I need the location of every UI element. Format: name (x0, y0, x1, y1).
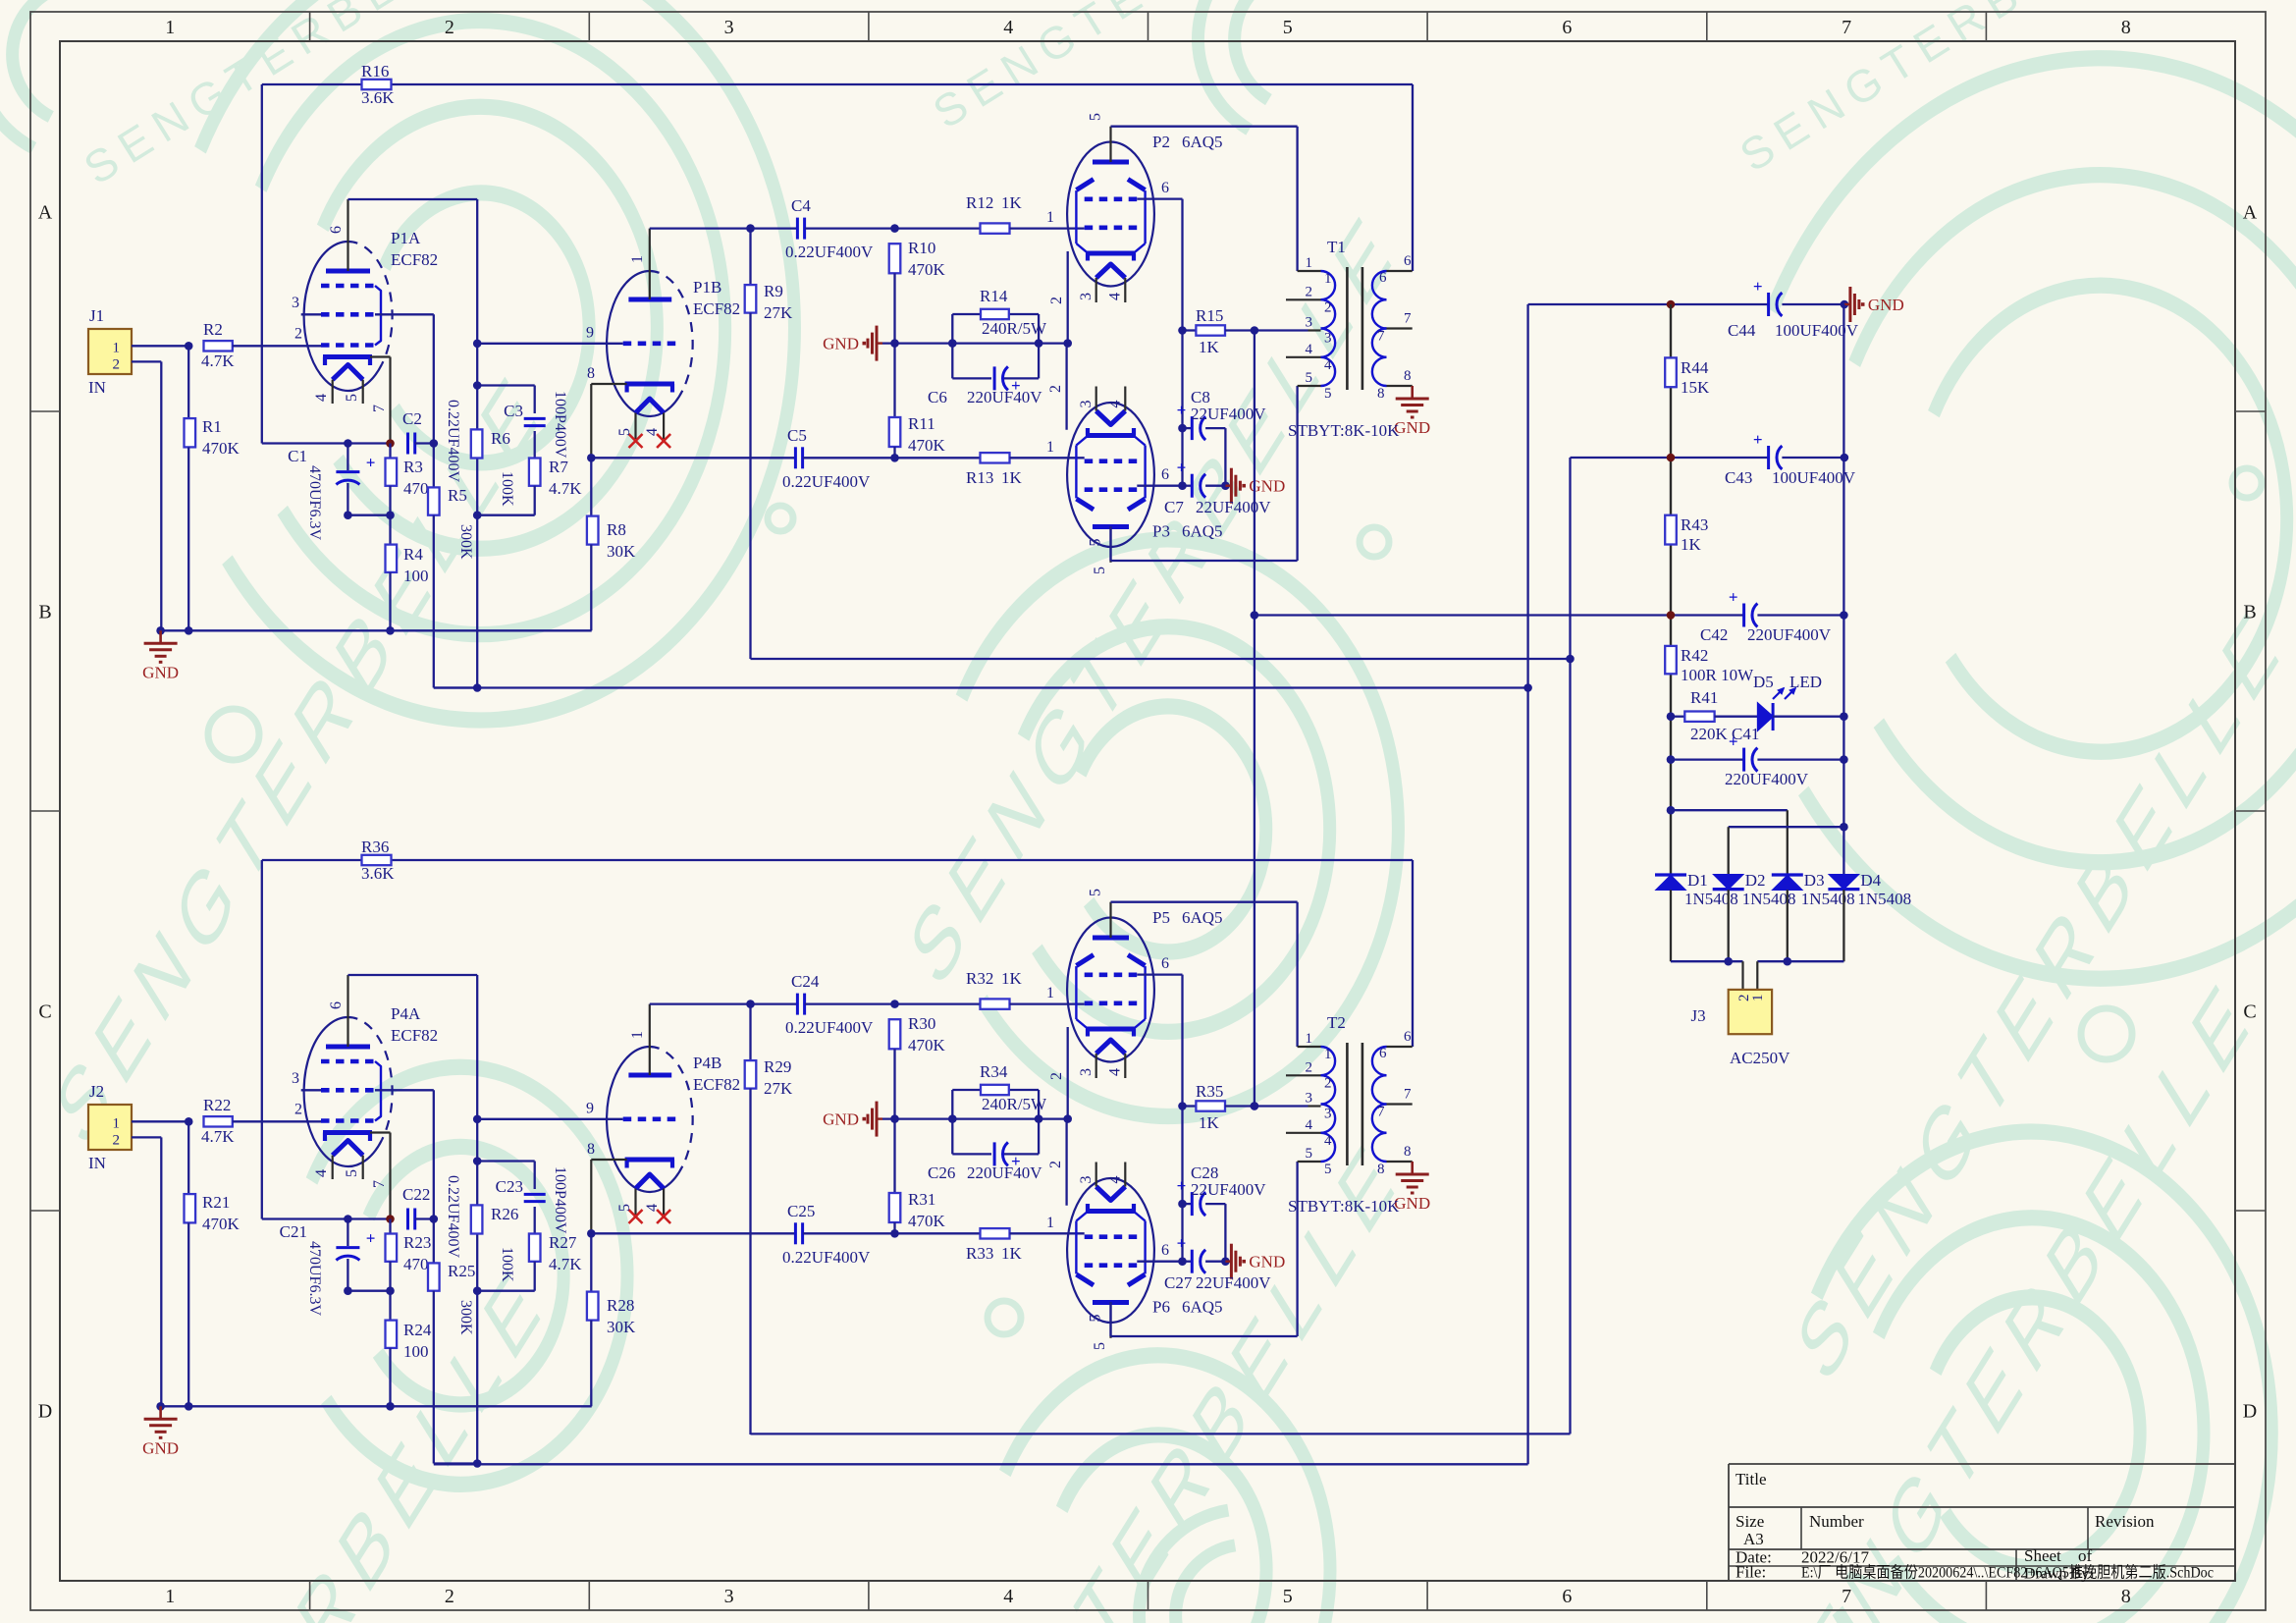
svg-text:1K: 1K (1681, 535, 1702, 554)
svg-text:File:: File: (1735, 1563, 1766, 1582)
svg-text:30K: 30K (607, 542, 636, 561)
svg-text:6: 6 (1562, 17, 1572, 38)
svg-text:9: 9 (586, 1101, 594, 1117)
svg-text:D1: D1 (1687, 871, 1708, 890)
svg-text:1K: 1K (1001, 193, 1023, 212)
svg-text:Size: Size (1735, 1512, 1764, 1531)
svg-text:4: 4 (313, 394, 330, 402)
svg-text:3: 3 (1324, 331, 1332, 347)
svg-text:470K: 470K (202, 1215, 240, 1233)
svg-text:D4: D4 (1860, 871, 1881, 890)
svg-text:0.22UF400V: 0.22UF400V (785, 243, 874, 261)
svg-text:1K: 1K (1199, 338, 1220, 356)
svg-text:2: 2 (1048, 1072, 1065, 1080)
svg-text:6AQ5: 6AQ5 (1182, 522, 1223, 541)
svg-text:C25: C25 (787, 1202, 815, 1220)
svg-text:240R/5W: 240R/5W (982, 319, 1047, 338)
svg-text:P4B: P4B (693, 1054, 721, 1072)
svg-text:P3: P3 (1152, 522, 1170, 541)
svg-text:6: 6 (1404, 253, 1412, 269)
svg-text:470UF6.3V: 470UF6.3V (306, 465, 323, 540)
svg-text:6: 6 (1562, 1586, 1572, 1607)
svg-text:0.22UF400V: 0.22UF400V (782, 472, 871, 491)
svg-text:J3: J3 (1690, 1006, 1705, 1025)
svg-text:15K: 15K (1681, 378, 1710, 397)
svg-text:+: + (1177, 1234, 1187, 1253)
svg-text:R26: R26 (491, 1205, 518, 1223)
svg-text:6: 6 (1161, 180, 1169, 196)
svg-text:220UF40V: 220UF40V (967, 1163, 1042, 1182)
svg-text:P4A: P4A (391, 1004, 421, 1023)
svg-text:1: 1 (113, 341, 121, 356)
svg-text:5: 5 (1283, 1586, 1293, 1607)
svg-text:7: 7 (1377, 329, 1385, 345)
svg-text:4: 4 (644, 1204, 661, 1212)
svg-text:R10: R10 (908, 239, 935, 257)
svg-text:P1B: P1B (693, 278, 721, 297)
svg-text:2: 2 (294, 326, 302, 343)
svg-text:470: 470 (403, 1255, 429, 1273)
svg-text:R8: R8 (607, 520, 626, 539)
svg-text:R13: R13 (966, 468, 993, 487)
svg-text:C44: C44 (1728, 321, 1756, 340)
svg-text:P2: P2 (1152, 133, 1170, 151)
svg-text:R23: R23 (403, 1233, 431, 1252)
svg-text:5: 5 (1088, 1315, 1104, 1323)
svg-text:R31: R31 (908, 1190, 935, 1209)
svg-text:4: 4 (1107, 401, 1124, 408)
svg-text:1: 1 (165, 17, 175, 38)
svg-text:C43: C43 (1725, 468, 1752, 487)
svg-text:R32: R32 (966, 969, 993, 988)
svg-text:220UF40V: 220UF40V (967, 388, 1042, 406)
svg-text:27K: 27K (764, 1079, 793, 1098)
svg-text:2: 2 (1047, 385, 1064, 393)
svg-text:3: 3 (1306, 1091, 1313, 1107)
svg-text:2: 2 (1324, 1075, 1332, 1091)
svg-text:1: 1 (1324, 1047, 1332, 1062)
svg-text:2: 2 (1048, 297, 1065, 304)
svg-text:220UF400V: 220UF400V (1747, 625, 1832, 644)
svg-text:B: B (38, 602, 51, 623)
svg-text:P5: P5 (1152, 908, 1170, 927)
svg-text:1: 1 (1750, 995, 1766, 1002)
svg-text:C1: C1 (288, 447, 307, 465)
svg-text:100UF400V: 100UF400V (1775, 321, 1859, 340)
svg-text:240R/5W: 240R/5W (982, 1095, 1047, 1113)
svg-text:6AQ5: 6AQ5 (1182, 908, 1223, 927)
svg-text:6AQ5: 6AQ5 (1182, 133, 1223, 151)
svg-text:6: 6 (328, 226, 345, 234)
svg-text:3: 3 (1324, 1107, 1332, 1122)
svg-text:1N5408: 1N5408 (1801, 890, 1855, 908)
svg-text:1K: 1K (1001, 969, 1023, 988)
svg-text:GND: GND (823, 1110, 859, 1129)
svg-text:GND: GND (1394, 418, 1430, 437)
svg-text:100K: 100K (499, 471, 515, 507)
svg-text:P1A: P1A (391, 229, 421, 247)
svg-text:1N5408: 1N5408 (1684, 890, 1738, 908)
svg-text:30K: 30K (607, 1318, 636, 1336)
svg-text:GND: GND (1394, 1194, 1430, 1213)
svg-text:D: D (38, 1401, 52, 1423)
svg-text:6: 6 (1161, 466, 1169, 483)
svg-text:+: + (1753, 277, 1763, 296)
svg-text:2: 2 (294, 1102, 302, 1118)
svg-text:4: 4 (1107, 293, 1124, 300)
svg-text:+: + (366, 1229, 376, 1248)
svg-text:2: 2 (1306, 284, 1313, 299)
svg-text:3: 3 (724, 17, 734, 38)
svg-text:2: 2 (445, 1586, 454, 1607)
svg-text:220K: 220K (1690, 725, 1729, 743)
svg-text:5: 5 (344, 1169, 360, 1177)
svg-text:0.22UF400V: 0.22UF400V (782, 1248, 871, 1267)
svg-text:C5: C5 (787, 426, 807, 445)
svg-text:GND: GND (823, 335, 859, 353)
svg-text:5: 5 (1324, 1162, 1332, 1177)
svg-text:4: 4 (1306, 1117, 1313, 1133)
svg-text:+: + (1177, 401, 1187, 419)
svg-text:R4: R4 (403, 545, 423, 564)
svg-text:R27: R27 (549, 1233, 577, 1252)
svg-text:D2: D2 (1745, 871, 1766, 890)
svg-text:+: + (1177, 459, 1187, 477)
svg-text:of: of (2078, 1546, 2093, 1565)
svg-text:STBYT:8K-10K: STBYT:8K-10K (1288, 1197, 1400, 1216)
svg-text:A3: A3 (1743, 1530, 1764, 1548)
svg-text:27K: 27K (764, 303, 793, 322)
svg-text:4.7K: 4.7K (549, 479, 582, 498)
svg-text:2: 2 (1047, 1161, 1064, 1168)
svg-text:4.7K: 4.7K (201, 352, 235, 370)
svg-text:ECF82: ECF82 (391, 250, 438, 269)
svg-text:GND: GND (142, 663, 179, 681)
svg-text:1: 1 (1306, 255, 1313, 271)
svg-text:R41: R41 (1690, 688, 1718, 707)
svg-text:3: 3 (1306, 315, 1313, 331)
svg-text:7: 7 (1842, 17, 1851, 38)
svg-text:+: + (366, 454, 376, 472)
svg-text:R12: R12 (966, 193, 993, 212)
svg-text:R5: R5 (448, 486, 467, 505)
svg-text:1: 1 (1046, 439, 1054, 456)
svg-text:3: 3 (1078, 1068, 1095, 1076)
svg-text:C22: C22 (402, 1185, 430, 1204)
svg-text:R35: R35 (1196, 1082, 1223, 1101)
svg-text:D3: D3 (1804, 871, 1825, 890)
svg-text:R22: R22 (203, 1096, 231, 1114)
svg-text:1: 1 (113, 1116, 121, 1132)
svg-text:R3: R3 (403, 458, 423, 476)
svg-text:Number: Number (1809, 1512, 1864, 1531)
svg-text:R6: R6 (491, 429, 510, 448)
svg-text:5: 5 (1092, 1342, 1108, 1350)
svg-text:100K: 100K (499, 1247, 515, 1282)
svg-text:1K: 1K (1199, 1113, 1220, 1132)
svg-text:470K: 470K (908, 260, 946, 279)
svg-text:22UF400V: 22UF400V (1196, 498, 1271, 516)
svg-text:C21: C21 (280, 1222, 307, 1241)
svg-text:Sheet: Sheet (2024, 1546, 2061, 1565)
svg-text:3: 3 (1078, 1176, 1095, 1184)
svg-text:470K: 470K (908, 1036, 946, 1055)
svg-text:R7: R7 (549, 458, 568, 476)
svg-text:5: 5 (344, 394, 360, 402)
svg-text:22UF400V: 22UF400V (1191, 1180, 1266, 1199)
svg-text:6: 6 (1161, 955, 1169, 972)
svg-text:C27: C27 (1164, 1273, 1193, 1292)
svg-text:ECF82: ECF82 (693, 1075, 740, 1094)
svg-text:8: 8 (2121, 17, 2131, 38)
svg-text:8: 8 (587, 365, 595, 382)
svg-text:+: + (1177, 1176, 1187, 1195)
svg-text:E:\厂 电脑桌面备份20200624\..\ECF82+6: E:\厂 电脑桌面备份20200624\..\ECF82+6AQ5推挽胆机第二版… (1801, 1564, 2214, 1582)
svg-text:470K: 470K (908, 436, 946, 455)
svg-text:470K: 470K (202, 439, 240, 458)
svg-text:5: 5 (1324, 386, 1332, 402)
svg-text:P6: P6 (1152, 1298, 1170, 1317)
svg-text:+: + (1753, 430, 1763, 449)
svg-text:R44: R44 (1681, 358, 1709, 377)
svg-text:7: 7 (1842, 1586, 1851, 1607)
svg-text:R43: R43 (1681, 515, 1708, 534)
svg-text:R24: R24 (403, 1321, 432, 1339)
svg-text:R1: R1 (202, 417, 222, 436)
svg-text:R30: R30 (908, 1014, 935, 1033)
svg-text:R29: R29 (764, 1057, 791, 1076)
svg-text:D5: D5 (1753, 673, 1774, 691)
svg-text:C7: C7 (1164, 498, 1184, 516)
svg-text:100P400V: 100P400V (552, 1166, 568, 1234)
svg-text:0.22UF400V: 0.22UF400V (445, 400, 461, 482)
svg-text:100: 100 (403, 1342, 429, 1361)
svg-text:C42: C42 (1700, 625, 1728, 644)
svg-text:8: 8 (1404, 1144, 1412, 1160)
svg-text:2: 2 (113, 1133, 121, 1149)
svg-text:3.6K: 3.6K (361, 864, 395, 883)
svg-text:Drawn By:: Drawn By: (2024, 1566, 2094, 1583)
svg-text:J1: J1 (89, 306, 104, 325)
svg-text:5: 5 (1306, 370, 1313, 386)
svg-text:1: 1 (629, 1031, 646, 1039)
svg-text:IN: IN (88, 1154, 106, 1172)
svg-text:3: 3 (1078, 293, 1095, 300)
svg-text:4.7K: 4.7K (201, 1127, 235, 1146)
svg-text:8: 8 (1404, 368, 1412, 384)
svg-text:9: 9 (586, 325, 594, 342)
svg-text:C4: C4 (791, 196, 811, 215)
svg-text:7: 7 (1404, 311, 1412, 327)
svg-text:6: 6 (1379, 270, 1387, 286)
svg-text:STBYT:8K-10K: STBYT:8K-10K (1288, 421, 1400, 440)
svg-text:ECF82: ECF82 (693, 299, 740, 318)
svg-text:2: 2 (1324, 299, 1332, 315)
svg-text:100P400V: 100P400V (552, 391, 568, 459)
svg-text:6AQ5: 6AQ5 (1182, 1298, 1223, 1317)
svg-text:GND: GND (1249, 1253, 1285, 1271)
svg-text:4: 4 (313, 1169, 330, 1177)
svg-text:8: 8 (2121, 1586, 2131, 1607)
svg-text:Title: Title (1735, 1470, 1767, 1488)
svg-text:8: 8 (1377, 386, 1385, 402)
svg-text:R33: R33 (966, 1244, 993, 1263)
svg-text:4: 4 (1107, 1176, 1124, 1184)
svg-text:1K: 1K (1001, 1244, 1023, 1263)
svg-text:6: 6 (328, 1001, 345, 1009)
svg-text:GND: GND (142, 1438, 179, 1457)
svg-text:C23: C23 (496, 1177, 523, 1196)
svg-text:22UF400V: 22UF400V (1196, 1273, 1271, 1292)
svg-text:C26: C26 (928, 1163, 955, 1182)
svg-text:A: A (2243, 202, 2258, 224)
svg-text:2: 2 (1306, 1059, 1313, 1075)
svg-text:R16: R16 (361, 62, 389, 81)
svg-text:7: 7 (1404, 1087, 1412, 1103)
svg-text:100R 10W: 100R 10W (1681, 666, 1754, 684)
svg-text:8: 8 (1377, 1162, 1385, 1177)
svg-text:4: 4 (1306, 342, 1313, 357)
svg-text:4: 4 (644, 428, 661, 436)
svg-text:4: 4 (1003, 17, 1013, 38)
svg-text:R34: R34 (980, 1062, 1008, 1081)
svg-text:C6: C6 (928, 388, 947, 406)
svg-text:C41: C41 (1732, 725, 1759, 743)
svg-text:2: 2 (445, 17, 454, 38)
svg-text:1: 1 (165, 1586, 175, 1607)
svg-text:1: 1 (1046, 209, 1054, 226)
svg-text:R25: R25 (448, 1262, 475, 1280)
svg-text:4: 4 (1107, 1068, 1124, 1076)
svg-text:3: 3 (292, 295, 299, 311)
svg-text:4: 4 (1324, 1133, 1332, 1149)
svg-text:7: 7 (371, 1180, 388, 1188)
svg-text:1: 1 (1324, 271, 1332, 287)
svg-text:R14: R14 (980, 287, 1008, 305)
svg-text:100: 100 (403, 567, 429, 585)
svg-text:A: A (38, 202, 53, 224)
svg-text:IN: IN (88, 378, 106, 397)
svg-text:300K: 300K (457, 524, 474, 560)
svg-text:C3: C3 (504, 402, 523, 420)
svg-text:7: 7 (371, 405, 388, 412)
svg-text:5: 5 (616, 1204, 633, 1212)
svg-text:1: 1 (1046, 985, 1054, 1001)
svg-text:3: 3 (724, 1586, 734, 1607)
svg-text:C: C (2243, 1001, 2256, 1023)
svg-text:R42: R42 (1681, 646, 1708, 665)
svg-text:3.6K: 3.6K (361, 88, 395, 107)
svg-text:4: 4 (1324, 357, 1332, 373)
svg-text:B: B (2243, 602, 2256, 623)
svg-text:220UF400V: 220UF400V (1725, 770, 1809, 788)
svg-text:5: 5 (1088, 539, 1104, 547)
svg-text:ECF82: ECF82 (391, 1026, 438, 1045)
svg-text:1K: 1K (1001, 468, 1023, 487)
svg-text:300K: 300K (457, 1300, 474, 1335)
svg-text:6: 6 (1404, 1029, 1412, 1045)
svg-text:0.22UF400V: 0.22UF400V (785, 1018, 874, 1037)
svg-text:5: 5 (1092, 567, 1108, 574)
svg-text:7: 7 (1377, 1105, 1385, 1120)
svg-text:T1: T1 (1327, 238, 1346, 256)
svg-text:+: + (1729, 588, 1738, 607)
svg-text:R28: R28 (607, 1296, 634, 1315)
svg-text:GND: GND (1868, 296, 1904, 314)
svg-text:5: 5 (1088, 113, 1104, 121)
svg-text:LED: LED (1789, 673, 1822, 691)
svg-text:R36: R36 (361, 838, 389, 856)
svg-text:6: 6 (1379, 1046, 1387, 1061)
svg-text:0.22UF400V: 0.22UF400V (445, 1175, 461, 1258)
svg-text:5: 5 (1283, 17, 1293, 38)
svg-text:5: 5 (616, 428, 633, 436)
svg-text:2: 2 (113, 357, 121, 373)
svg-text:AC250V: AC250V (1730, 1049, 1790, 1067)
svg-text:3: 3 (292, 1070, 299, 1087)
svg-text:R2: R2 (203, 320, 223, 339)
svg-text:470K: 470K (908, 1212, 946, 1230)
svg-text:R11: R11 (908, 414, 935, 433)
svg-text:8: 8 (587, 1141, 595, 1158)
svg-text:1: 1 (1306, 1031, 1313, 1047)
svg-text:C: C (38, 1001, 51, 1023)
svg-text:R15: R15 (1196, 306, 1223, 325)
svg-text:D: D (2243, 1401, 2257, 1423)
svg-text:T2: T2 (1327, 1013, 1346, 1032)
svg-text:3: 3 (1078, 401, 1095, 408)
svg-text:4.7K: 4.7K (549, 1255, 582, 1273)
svg-text:1: 1 (1046, 1215, 1054, 1231)
svg-text:J2: J2 (89, 1082, 104, 1101)
svg-text:1N5408: 1N5408 (1857, 890, 1911, 908)
svg-text:6: 6 (1161, 1242, 1169, 1259)
svg-text:R9: R9 (764, 282, 783, 300)
svg-text:470: 470 (403, 479, 429, 498)
svg-text:Revision: Revision (2095, 1512, 2155, 1531)
svg-text:C24: C24 (791, 972, 820, 991)
svg-text:5: 5 (1306, 1146, 1313, 1162)
svg-text:R21: R21 (202, 1193, 230, 1212)
svg-text:470UF6.3V: 470UF6.3V (306, 1241, 323, 1316)
svg-text:C2: C2 (402, 409, 422, 428)
svg-text:5: 5 (1088, 889, 1104, 896)
svg-text:1: 1 (629, 255, 646, 263)
svg-text:4: 4 (1003, 1586, 1013, 1607)
